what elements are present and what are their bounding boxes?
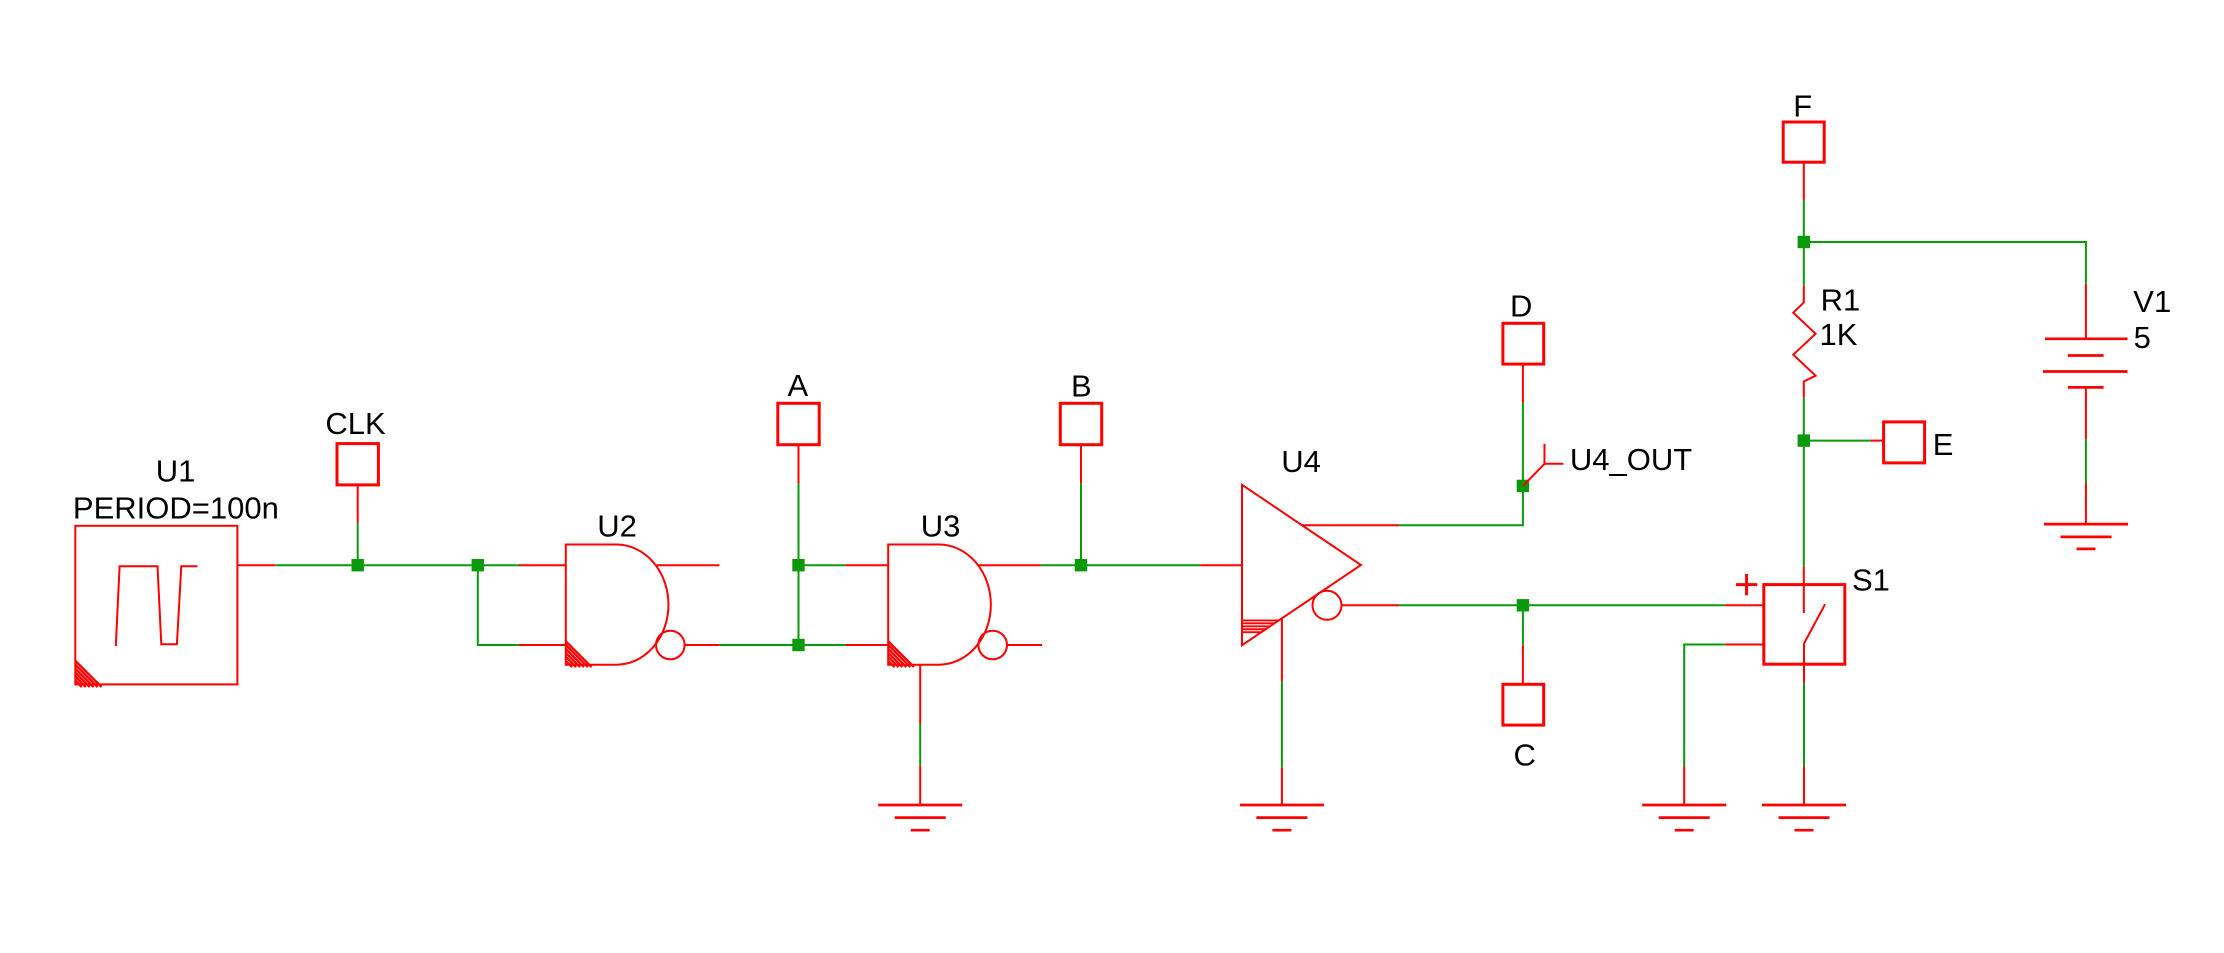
buffer U4 <box>1242 485 1361 645</box>
wire U2 lower input branch green <box>478 565 519 645</box>
wire A pin red <box>798 445 800 484</box>
wire U3 out to B rail green <box>1041 564 1201 566</box>
svg-text:U4: U4 <box>1281 444 1321 479</box>
svg-text:U1: U1 <box>156 454 196 489</box>
wire A vertical green <box>798 483 800 645</box>
wire C branch <box>1522 605 1524 684</box>
ground under S1 <box>1762 805 1846 830</box>
wire junction to U3 bottom input <box>805 644 889 646</box>
wire F junction to V1 <box>1804 242 2086 284</box>
wire V1 bottom <box>2085 387 2087 524</box>
svg-text:U4_OUT: U4_OUT <box>1570 442 1692 477</box>
node junction C <box>1517 599 1529 611</box>
ground under U3 <box>878 805 962 830</box>
wire S1 lower-left to ground <box>1684 645 1764 806</box>
port B <box>1060 369 1101 445</box>
port CLK <box>325 406 386 485</box>
svg-text:B: B <box>1071 369 1092 404</box>
svg-text:U2: U2 <box>597 509 637 544</box>
wire junction to U3 top input <box>805 564 889 566</box>
node junction E <box>1798 434 1810 446</box>
switch S1 <box>1764 585 1845 665</box>
wire U2 lower input red <box>519 644 566 646</box>
svg-text:D: D <box>1510 289 1532 324</box>
node junction U4_OUT <box>1517 480 1529 492</box>
node junction A upper <box>792 559 804 571</box>
port D <box>1503 289 1544 365</box>
U4_OUT tag <box>1523 444 1564 486</box>
svg-text:1K: 1K <box>1820 317 1858 352</box>
ground under V1 <box>2044 524 2128 549</box>
svg-text:V1: V1 <box>2133 284 2171 319</box>
wire U4 ground pin <box>1281 618 1283 806</box>
battery V1 <box>2043 339 2128 388</box>
svg-text:R1: R1 <box>1821 283 1861 318</box>
node junction A lower <box>792 639 804 651</box>
ground left of S1 <box>1642 805 1726 830</box>
node junction CLK <box>352 559 364 571</box>
wire main rail green <box>275 564 519 566</box>
node junction F <box>1798 236 1810 248</box>
wire E branch <box>1804 440 1884 442</box>
NAND gate U2 <box>566 545 720 668</box>
port A <box>778 368 819 445</box>
wire B pin green <box>1080 483 1082 565</box>
wire U2 output green <box>719 644 798 646</box>
wire U4 bubble output <box>1342 604 1764 606</box>
svg-text:U3: U3 <box>921 509 961 544</box>
wire U4 upper output <box>1302 364 1523 525</box>
svg-text:PERIOD=100n: PERIOD=100n <box>73 491 279 526</box>
wire S1 top contact red <box>1803 567 1805 613</box>
svg-text:E: E <box>1933 427 1954 462</box>
wire red into U2 top input <box>519 564 566 566</box>
node junction B <box>1075 559 1087 571</box>
svg-text:F: F <box>1793 89 1812 124</box>
wire U1 output stub <box>237 564 275 566</box>
svg-text:5: 5 <box>2134 320 2151 355</box>
wire CLK pin red <box>357 485 359 523</box>
wire F pin <box>1803 162 1805 242</box>
wire S1 bottom pin <box>1803 644 1805 806</box>
port C <box>1503 684 1544 772</box>
pulse source U1 <box>75 526 237 687</box>
port E <box>1884 422 1954 463</box>
wire U3 ground pin <box>919 665 921 805</box>
NAND gate U3 <box>888 545 1042 668</box>
S1 plus sign <box>1736 574 1757 595</box>
resistor R1 <box>1793 242 1815 441</box>
wire V1 top red <box>2085 284 2087 339</box>
svg-text:A: A <box>788 368 809 403</box>
ground under U4 <box>1240 805 1324 830</box>
wire red into U4 input <box>1200 564 1242 566</box>
port F <box>1783 89 1824 163</box>
node junction U2 inputs <box>472 559 484 571</box>
wire CLK pin green <box>357 523 359 565</box>
wire junction E to S1 <box>1803 447 1805 567</box>
wire B pin red <box>1080 445 1082 484</box>
svg-text:C: C <box>1514 738 1536 773</box>
svg-text:CLK: CLK <box>325 406 386 441</box>
svg-text:S1: S1 <box>1852 563 1890 598</box>
